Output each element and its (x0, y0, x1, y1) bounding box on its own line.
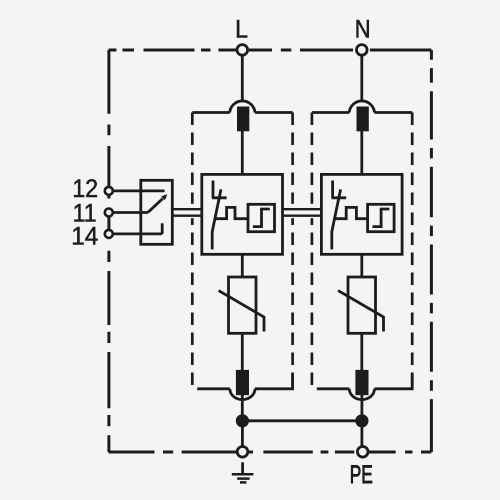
terminal 12 circle (105, 187, 113, 195)
svg-text:N: N (355, 15, 371, 43)
disconnector contact F4 (bottom, module 2) (355, 370, 368, 395)
wire terminal 14 (110, 232, 162, 235)
trigger unit U2 box (321, 174, 402, 254)
trigger unit U1 box (202, 174, 283, 254)
U2 switch blade (332, 189, 341, 249)
wire F3 to junction (241, 395, 244, 421)
terminal PE circle (357, 447, 368, 458)
outer enclosure dash-dot border right (430, 50, 433, 452)
varistor RV1 body (229, 277, 257, 333)
wire N drop (360, 55, 363, 101)
module 2 bottom edge with crossing hop (317, 374, 412, 400)
module 1 dashed box left border (191, 113, 194, 387)
wire terminal 12 (110, 189, 165, 192)
wire junction bus (242, 419, 362, 422)
module 2 top edge with crossing hop (312, 101, 412, 113)
ground terminal circle (237, 447, 248, 458)
terminal N circle (357, 45, 368, 56)
svg-text:PE: PE (350, 461, 373, 489)
remote signalling contact S1 box (141, 180, 173, 244)
wire node A to ground terminal (241, 421, 244, 446)
S1 blade arrowhead (161, 194, 167, 200)
junction node B (355, 414, 368, 427)
wire gap masks where coupling crosses dashed borders (191, 204, 314, 218)
svg-text:L: L (235, 15, 248, 43)
module 2 dashed box right border (411, 113, 414, 390)
wire U2 to varistor (360, 254, 363, 277)
wire terminal 11 (110, 211, 148, 214)
outer enclosure dash-dot border top (109, 49, 432, 52)
wire F2 to U2 (360, 131, 363, 175)
module 1 dashed box right border (291, 113, 294, 390)
terminal L circle (237, 45, 248, 56)
terminal 11 circle (105, 209, 113, 217)
varistor RV2 diagonal (338, 291, 383, 332)
coupling double line U1 to U2 (283, 209, 322, 216)
U2 pulse waveform (335, 207, 368, 218)
wire RV1 to F3 (241, 333, 244, 370)
wire node B to PE terminal (360, 421, 363, 446)
U1 trigger step symbol (253, 209, 270, 227)
module 2 dashed box left border (311, 113, 314, 387)
wire U1 to varistor (241, 254, 244, 277)
disconnector contact F2 (top, module 2) (357, 107, 369, 132)
ground (232, 462, 254, 482)
U1 switch blade (212, 189, 221, 249)
terminal 14 circle (105, 230, 113, 238)
wire F4 to junction (360, 395, 363, 421)
module 1 top edge with crossing hop (192, 101, 292, 113)
wire RV2 to F4 (360, 333, 363, 370)
U1 trigger box (248, 204, 275, 231)
svg-text:14: 14 (71, 222, 98, 250)
varistor RV1 diagonal (219, 291, 264, 332)
U1 switch lead (212, 181, 227, 199)
disconnector contact F3 (bottom, module 1) (236, 370, 249, 395)
junction node A (236, 414, 249, 427)
U1 pulse waveform (215, 207, 248, 218)
outer enclosure dash-dot border bottom (109, 451, 432, 454)
U2 switch lead (332, 181, 347, 199)
disconnector contact F1 (top, module 1) (237, 107, 249, 132)
S1 moving blade (148, 199, 163, 213)
wire L drop (241, 55, 244, 101)
coupling double line S1 to U1 (172, 209, 203, 216)
outer enclosure dash-dot border left (107, 50, 110, 452)
module 1 bottom edge with crossing hop (197, 374, 292, 400)
U2 trigger step symbol (373, 209, 390, 227)
S1 fixed contact 14 stub (161, 223, 164, 234)
wire F1 to U1 (241, 131, 244, 175)
varistor RV2 body (348, 277, 376, 333)
U2 trigger box (368, 204, 395, 231)
